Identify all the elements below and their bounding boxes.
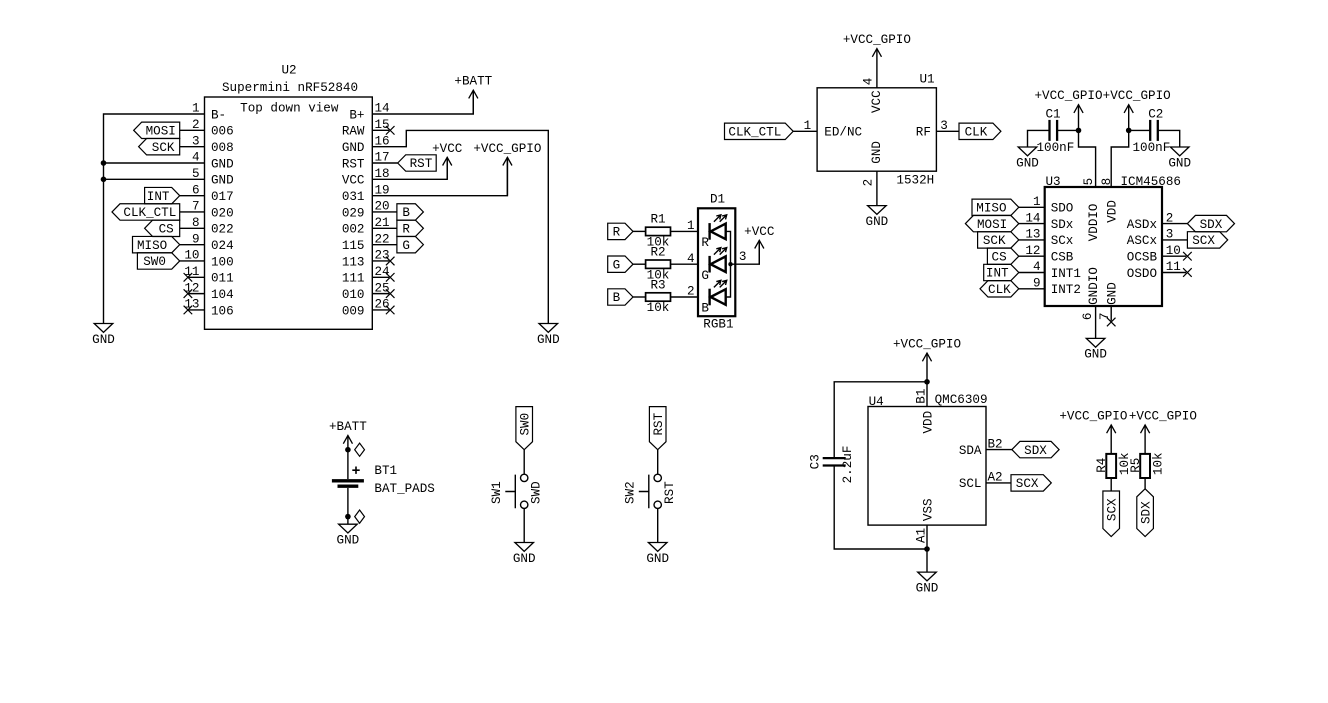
svg-text:111: 111: [342, 272, 365, 286]
svg-text:BT1: BT1: [374, 464, 397, 478]
svg-text:RST: RST: [663, 481, 677, 504]
resistor R5 body: [1140, 454, 1150, 478]
wire CLK_CTL label to U1 pin1: [793, 130, 817, 132]
wire U3 pin7 stub: [1110, 306, 1112, 321]
junction D1 anode rail: [728, 262, 732, 266]
wire U2 pin18 VCC to +VCC: [372, 157, 447, 179]
no-connect U2 pin25: [386, 289, 395, 298]
svg-text:SDA: SDA: [959, 444, 982, 458]
svg-text:INT: INT: [986, 267, 1009, 281]
wire U2 pin19 to +VCC_GPIO: [372, 157, 507, 195]
wire U2 pin15 stub: [372, 129, 389, 131]
no-connect U3 pin10: [1183, 252, 1192, 261]
svg-text:CSB: CSB: [1051, 251, 1074, 265]
svg-text:VDDIO: VDDIO: [1087, 204, 1101, 242]
svg-text:ASDx: ASDx: [1127, 218, 1157, 232]
svg-text:ED/NC: ED/NC: [824, 126, 862, 140]
svg-text:ASCx: ASCx: [1127, 234, 1157, 248]
no-connect U2 pin12: [184, 289, 193, 298]
svg-text:G: G: [613, 258, 621, 272]
svg-text:2: 2: [862, 179, 876, 187]
wire U4 VSS to ground: [926, 549, 928, 572]
svg-text:008: 008: [211, 141, 234, 155]
wire label G to R2: [633, 263, 646, 265]
wire U3 pin2 to SDX label: [1162, 223, 1187, 225]
svg-text:2: 2: [687, 285, 695, 299]
svg-text:SCX: SCX: [1192, 234, 1215, 248]
wire +VCC_GPIO to U4 VDD: [926, 382, 928, 407]
svg-text:10k: 10k: [647, 301, 670, 315]
svg-text:113: 113: [342, 255, 365, 269]
svg-text:Top down view: Top down view: [240, 102, 339, 116]
wire U3 pin13 to label SCK: [1019, 239, 1045, 241]
wire U2 pin7 to label CLK_CTL: [180, 211, 205, 213]
junction C1 +VCC_GPIO: [1076, 128, 1082, 134]
wire U3 pin10 stub: [1162, 255, 1186, 257]
svg-text:B1: B1: [915, 389, 929, 404]
global label SW0 at U2 pin10: [137, 253, 179, 269]
svg-text:GND: GND: [870, 141, 884, 164]
svg-text:RST: RST: [652, 412, 666, 435]
svg-text:+VCC: +VCC: [744, 225, 775, 239]
global label SCX at U4 pin A2: [1011, 475, 1051, 491]
capacitor C2 body: [1149, 120, 1151, 141]
power +VCC_GPIO above R4: [1110, 425, 1112, 454]
svg-text:R1: R1: [650, 213, 665, 227]
svg-text:RST: RST: [342, 157, 365, 171]
svg-text:INT1: INT1: [1051, 267, 1081, 281]
svg-text:U1: U1: [919, 72, 934, 86]
global label CLK_CTL at U1 pin1: [725, 123, 794, 139]
global label G at resistor R2: [608, 256, 633, 272]
svg-text:GND: GND: [1168, 156, 1191, 170]
wire R3 to D1: [671, 296, 699, 298]
resistor R3 body: [646, 293, 671, 301]
global label RST at U2 pin17: [398, 155, 437, 171]
junction battery positive: [345, 447, 351, 453]
svg-text:B: B: [701, 302, 709, 316]
global label INT at U3 pin4: [984, 264, 1019, 280]
wire RST label to SW2: [657, 450, 659, 475]
svg-text:R3: R3: [650, 278, 665, 292]
wire C3 loop left: [834, 382, 927, 458]
svg-text:GND: GND: [342, 141, 365, 155]
svg-text:104: 104: [211, 288, 234, 302]
svg-text:GNDIO: GNDIO: [1087, 267, 1101, 305]
no-connect U2 pin11: [184, 273, 193, 282]
capacitor C1 body: [1048, 120, 1050, 141]
U2 left pin numbers 1-13: [184, 102, 199, 312]
wire junction to U3 pin8 VDD: [1111, 130, 1129, 187]
wire SW0 label to SW1: [523, 450, 525, 475]
resistor R1 body: [646, 227, 671, 235]
global label SCK at U3 pin13: [978, 232, 1019, 248]
wire D1 pin3 to +VCC: [731, 240, 760, 264]
no-connect U2 pin15: [386, 126, 395, 135]
wire U2 pin21 to label R: [372, 227, 397, 229]
wire U2 pin23 stub: [372, 260, 389, 262]
power +VCC_GPIO left above U3: [1078, 105, 1080, 131]
svg-text:SCK: SCK: [983, 234, 1006, 248]
svg-text:CS: CS: [159, 223, 174, 237]
svg-text:G: G: [701, 269, 709, 283]
svg-text:7: 7: [1098, 313, 1112, 321]
svg-text:+VCC_GPIO: +VCC_GPIO: [1059, 410, 1127, 424]
svg-text:U4: U4: [869, 395, 884, 409]
U2 right pin names: [342, 108, 365, 318]
svg-text:U2: U2: [281, 63, 296, 77]
svg-text:SW0: SW0: [518, 413, 532, 436]
svg-text:OCSB: OCSB: [1127, 251, 1158, 265]
pin marker diamond battery negative: [355, 510, 365, 523]
wire R1 to D1: [671, 230, 699, 232]
svg-text:8: 8: [1100, 178, 1114, 186]
wire label B to R3: [633, 296, 646, 298]
svg-text:B: B: [402, 206, 410, 220]
power +BATT at battery BT1: [347, 436, 349, 450]
svg-text:D1: D1: [710, 193, 725, 207]
svg-text:GND: GND: [513, 552, 536, 566]
IC U2 Supermini nRF52840 body: [205, 97, 373, 329]
wire C3 to U4 VSS: [834, 466, 927, 549]
wire U3 pin12 to label CS: [1019, 255, 1045, 257]
wire U2 pin16 GND to right ground: [372, 130, 548, 323]
wire SW1 to ground: [523, 509, 525, 543]
wire U3 pin3 to SCX label: [1162, 239, 1187, 241]
svg-text:C1: C1: [1045, 107, 1060, 121]
svg-text:GND: GND: [537, 333, 560, 347]
wire battery bottom to GND: [347, 488, 349, 524]
svg-text:SDX: SDX: [1200, 218, 1223, 232]
U3 left pin numbers: [1025, 195, 1040, 291]
svg-text:U3: U3: [1046, 175, 1061, 189]
ground GND right of U2: [539, 324, 558, 333]
wire U2 pin1 B- to GND bus: [104, 114, 205, 324]
no-connect U2 pin24: [386, 273, 395, 282]
svg-text:Supermini nRF52840: Supermini nRF52840: [222, 81, 358, 95]
svg-text:SDX: SDX: [1139, 501, 1153, 524]
wire U2 pin13 stub: [188, 309, 204, 311]
svg-text:SCX: SCX: [1016, 477, 1039, 491]
wire U2 pin6 to label INT: [180, 195, 205, 197]
wire C2 right plate to GND: [1158, 130, 1180, 147]
wire U4 pin A1 VSS stub: [926, 525, 928, 549]
ground GND below SW2: [648, 543, 667, 552]
wire U2 pin17 to RST label: [372, 162, 397, 164]
svg-text:4: 4: [862, 78, 876, 86]
wire U2 pin5 GND to bus: [104, 178, 205, 180]
svg-text:RGB1: RGB1: [703, 318, 733, 332]
power +VCC at D1 pin3: [758, 240, 760, 264]
resistor R2 body: [646, 260, 671, 268]
wire U4 pin B2 to SDX label: [986, 449, 1012, 451]
U3 left pin names: [1051, 202, 1081, 298]
global label B at U2 pin20: [397, 204, 424, 220]
svg-text:10k: 10k: [1152, 452, 1166, 475]
wire R4 to SCX label: [1110, 478, 1112, 491]
global label SDX at U3 pin2: [1187, 215, 1234, 231]
svg-text:115: 115: [342, 239, 365, 253]
ground GND right of C2: [1170, 147, 1189, 156]
wire U1 pin2 GND stub: [876, 171, 878, 205]
svg-text:VCC: VCC: [342, 174, 365, 188]
svg-text:SW1: SW1: [490, 481, 504, 504]
svg-text:SDX: SDX: [1024, 444, 1047, 458]
IC U3 ICM45686 body: [1045, 187, 1162, 306]
svg-text:006: 006: [211, 125, 234, 139]
svg-text:QMC6309: QMC6309: [935, 393, 988, 407]
junction U4 VSS: [924, 546, 930, 552]
svg-text:GND: GND: [1084, 348, 1107, 362]
svg-text:010: 010: [342, 288, 365, 302]
svg-text:GND: GND: [866, 215, 889, 229]
svg-text:SCL: SCL: [959, 477, 982, 491]
svg-text:+VCC_GPIO: +VCC_GPIO: [893, 338, 961, 352]
power +VCC_GPIO at U2 pin19: [506, 157, 508, 195]
svg-text:011: 011: [211, 272, 234, 286]
wire U3 pin4 to label INT: [1019, 272, 1045, 274]
global label SCX below R4: [1103, 491, 1120, 537]
wire +BATT to battery top: [347, 450, 349, 479]
ground GND left of C1: [1018, 147, 1037, 156]
wire U2 pin25 stub: [372, 293, 389, 295]
svg-text:SDx: SDx: [1051, 218, 1074, 232]
global label SCX at U3 pin3: [1187, 232, 1227, 248]
svg-text:MOSI: MOSI: [977, 218, 1007, 232]
svg-text:C3: C3: [809, 454, 823, 469]
svg-text:GND: GND: [211, 174, 234, 188]
switch SW1 body: [521, 474, 528, 481]
ground GND below U2 left bus: [94, 324, 113, 333]
no-connect U3 pin11: [1183, 268, 1192, 277]
wire U3 pin1 to label MISO: [1019, 206, 1045, 208]
svg-text:CLK: CLK: [965, 126, 988, 140]
svg-text:G: G: [402, 239, 410, 253]
ground GND below SW1: [515, 543, 534, 552]
global label G at U2 pin22: [397, 236, 424, 252]
svg-text:+VCC: +VCC: [432, 142, 463, 156]
wire U3 pin11 stub: [1162, 272, 1186, 274]
wire R2 to D1: [671, 263, 699, 265]
wire U2 pin4 GND to bus: [104, 162, 205, 164]
wire U2 pin24 stub: [372, 276, 389, 278]
svg-text:R: R: [402, 223, 410, 237]
global label RST above SW2: [649, 407, 666, 450]
svg-text:+VCC_GPIO: +VCC_GPIO: [1034, 89, 1102, 103]
svg-text:MOSI: MOSI: [146, 125, 176, 139]
svg-text:CLK: CLK: [988, 283, 1011, 297]
global label CS at U3 pin12: [987, 248, 1018, 264]
wire U3 pin6 GNDIO to ground: [1095, 306, 1097, 338]
svg-text:INT2: INT2: [1051, 283, 1081, 297]
LED D1 blue element: [708, 289, 710, 306]
svg-text:GND: GND: [92, 333, 115, 347]
svg-text:031: 031: [342, 190, 365, 204]
ground GND below U3: [1086, 338, 1105, 347]
svg-text:SCx: SCx: [1051, 234, 1074, 248]
wire D1 anode rail: [726, 231, 731, 297]
svg-text:CLK_CTL: CLK_CTL: [728, 126, 781, 140]
svg-text:022: 022: [211, 223, 234, 237]
svg-text:VDD: VDD: [1106, 200, 1120, 223]
svg-text:R5: R5: [1129, 458, 1143, 473]
svg-text:+VCC_GPIO: +VCC_GPIO: [1129, 410, 1197, 424]
svg-text:CLK_CTL: CLK_CTL: [123, 206, 176, 220]
svg-text:SW2: SW2: [624, 481, 638, 504]
capacitor C3 body: [823, 457, 846, 459]
svg-text:MISO: MISO: [976, 202, 1006, 216]
wire label R to R1: [633, 230, 646, 232]
wire R5 to SDX label: [1144, 478, 1146, 489]
svg-text:R2: R2: [650, 246, 665, 260]
wire C1 right plate to junction: [1057, 129, 1078, 131]
wire U1 pin3 RF to CLK label: [936, 130, 959, 132]
wire SW2 to ground: [657, 509, 659, 543]
power +VCC_GPIO at U1 pin4: [876, 49, 878, 88]
svg-text:1532H: 1532H: [896, 173, 934, 187]
wire U2 pin11 stub: [188, 276, 204, 278]
global label MOSI at U3 pin14: [965, 215, 1018, 231]
svg-text:2.2uF: 2.2uF: [841, 446, 855, 484]
wire U3 pin9 to label CLK: [1019, 288, 1045, 290]
svg-text:SCK: SCK: [152, 141, 175, 155]
svg-text:GND: GND: [916, 581, 939, 595]
svg-text:SW0: SW0: [143, 255, 166, 269]
svg-text:VSS: VSS: [921, 498, 935, 521]
svg-text:RF: RF: [916, 126, 931, 140]
svg-text:100: 100: [211, 255, 234, 269]
svg-text:5: 5: [1082, 178, 1096, 186]
resistor R4 body: [1106, 454, 1116, 478]
svg-text:BAT_PADS: BAT_PADS: [374, 482, 434, 496]
svg-text:RAW: RAW: [342, 125, 365, 139]
svg-text:R: R: [613, 226, 621, 240]
junction battery negative: [345, 514, 351, 520]
global label SCK at U2 pin3: [139, 138, 180, 154]
svg-text:+VCC_GPIO: +VCC_GPIO: [473, 142, 541, 156]
power +VCC_GPIO at U4 pin B1: [926, 353, 928, 382]
no-connect U2 pin23: [386, 257, 395, 266]
wire U2 pin3 to label SCK: [180, 146, 205, 148]
global label CLK at U3 pin9: [980, 281, 1019, 297]
svg-text:GND: GND: [646, 552, 669, 566]
power +VCC_GPIO above R5: [1144, 425, 1146, 454]
wire junction to U3 pin5 VDDIO: [1079, 130, 1096, 187]
battery BT1 plus sign: [352, 467, 359, 474]
svg-text:024: 024: [211, 239, 234, 253]
power +VCC at U2 pin18: [446, 157, 448, 179]
svg-text:GND: GND: [211, 157, 234, 171]
U3 right pin numbers: [1166, 211, 1181, 274]
svg-text:4: 4: [687, 252, 695, 266]
global label SW0 above SW1: [516, 407, 533, 450]
svg-text:+VCC_GPIO: +VCC_GPIO: [1103, 89, 1171, 103]
svg-text:+BATT: +BATT: [329, 420, 367, 434]
svg-text:100nF: 100nF: [1037, 141, 1075, 155]
LED D1 green element: [708, 256, 710, 273]
wire U2 pin2 to label MOSI: [180, 129, 205, 131]
no-connect U2 pin13: [184, 306, 193, 315]
svg-text:A1: A1: [915, 528, 929, 543]
no-connect U3 pin7: [1107, 318, 1116, 327]
svg-text:INT: INT: [147, 190, 170, 204]
wire U4 pin A2 to SCX label: [986, 482, 1011, 484]
svg-text:009: 009: [342, 304, 365, 318]
svg-text:+VCC_GPIO: +VCC_GPIO: [843, 33, 911, 47]
wire U2 pin14 B+ to +BATT: [372, 90, 473, 114]
junction at GND bus pin5: [101, 177, 107, 183]
svg-text:017: 017: [211, 190, 234, 204]
svg-text:1: 1: [687, 219, 695, 233]
wire U2 pin8 to label CS: [180, 227, 205, 229]
wire U2 pin9 to label MISO: [180, 244, 205, 246]
junction at GND bus pin4: [101, 160, 107, 166]
LED D1 red element: [708, 223, 710, 240]
battery BT1 plates: [332, 479, 364, 482]
wire C2 left plate to junction: [1129, 129, 1151, 131]
svg-text:002: 002: [342, 223, 365, 237]
ground GND below U4: [918, 572, 937, 581]
svg-text:GND: GND: [337, 534, 360, 548]
wire U2 pin12 stub: [188, 293, 204, 295]
svg-text:OSDO: OSDO: [1127, 267, 1157, 281]
svg-text:R4: R4: [1095, 458, 1109, 473]
svg-text:+BATT: +BATT: [454, 75, 492, 89]
global label CLK_CTL at U2 pin7: [112, 204, 180, 220]
LED D1 body box: [698, 208, 735, 316]
svg-text:B-: B-: [211, 108, 226, 122]
global label B at resistor R3: [608, 289, 633, 305]
ground GND below battery: [339, 524, 358, 533]
switch SW2 body: [654, 474, 661, 481]
global label CLK at U1 pin3: [959, 123, 1001, 139]
svg-text:GND: GND: [1106, 282, 1120, 305]
wire U2 pin10 to label SW0: [180, 260, 205, 262]
U3 right pin names: [1127, 218, 1158, 281]
pin marker diamond battery positive: [355, 443, 365, 456]
svg-text:ICM45686: ICM45686: [1121, 175, 1181, 189]
power +BATT at U2 pin14: [472, 90, 474, 114]
svg-text:VDD: VDD: [921, 411, 935, 434]
svg-text:VCC: VCC: [870, 90, 884, 113]
IC U1 body: [817, 88, 936, 171]
svg-text:MISO: MISO: [137, 239, 167, 253]
global label SDX at U4 pin B2: [1012, 441, 1059, 457]
global label SDX below R5: [1137, 489, 1154, 537]
IC U4 body: [868, 407, 986, 526]
svg-text:100nF: 100nF: [1133, 141, 1171, 155]
svg-text:3: 3: [739, 250, 747, 264]
svg-text:B: B: [613, 291, 621, 305]
svg-text:C2: C2: [1148, 107, 1163, 121]
U2 left pin names: [211, 108, 234, 318]
U2 right pin numbers 14-26: [375, 102, 390, 312]
no-connect U2 pin26: [386, 306, 395, 315]
power +VCC_GPIO right above U3: [1128, 105, 1130, 131]
global label INT at U2 pin6: [145, 187, 180, 203]
svg-text:SWD: SWD: [530, 481, 544, 504]
svg-text:106: 106: [211, 304, 234, 318]
wire U2 pin22 to label G: [372, 244, 397, 246]
svg-text:6: 6: [1081, 313, 1095, 321]
wire U2 pin20 to label B: [372, 211, 397, 213]
global label CS at U2 pin8: [145, 220, 180, 236]
svg-text:SDO: SDO: [1051, 202, 1074, 216]
svg-text:R: R: [701, 236, 709, 250]
svg-text:RST: RST: [410, 157, 433, 171]
svg-text:B+: B+: [349, 108, 364, 122]
junction U4 VDD: [924, 379, 930, 385]
